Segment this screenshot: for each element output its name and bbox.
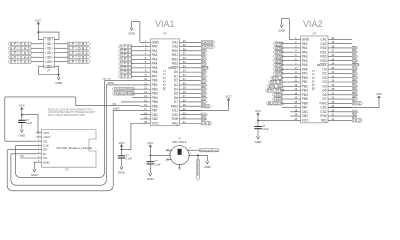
- svg-text:IRQ: IRQ: [321, 118, 327, 122]
- wire PB2: [134, 88, 140, 90]
- VIA2 left pin 2 (PA0): [290, 43, 301, 45]
- net label IO4: [201, 113, 207, 116]
- net label IRQ: [352, 119, 363, 122]
- wire PA7: [132, 75, 140, 77]
- net label GPIOB3: [68, 51, 91, 54]
- capacitor C1 0.1uF: [18, 119, 25, 121]
- wire VCC branch to pin 2: [38, 32, 59, 39]
- wire VIA2 PA0: [282, 43, 290, 45]
- wire PA2: [132, 54, 140, 56]
- svg-text:SHOULD CD BE ON AN INTERRUPT P: SHOULD CD BE ON AN INTERRUPT PIN?: [48, 109, 93, 112]
- VIA1 right pin 25 (PHI2): [179, 105, 201, 107]
- svg-text:GND: GND: [118, 171, 126, 175]
- GND power symbol below connector: [58, 75, 60, 77]
- DIN pin mid-left (VCC): [150, 154, 170, 156]
- MicroSD pin 8 (GND): [36, 161, 41, 163]
- VCC power symbol (VIA2): [257, 114, 259, 117]
- wire to connector pin 3: [31, 43, 44, 45]
- svg-text:GPIOB3: GPIOB3: [68, 51, 89, 55]
- DIN pin bottom (NC): [179, 164, 181, 168]
- GND power symbol (C3): [149, 171, 151, 173]
- wire PB5: [121, 101, 140, 103]
- svg-text:GND: GND: [255, 140, 263, 144]
- VIA2 left pin 16 (PB6): [290, 102, 301, 104]
- MicroSD pin 3 (CD): [36, 140, 41, 142]
- VCC power symbol (VIA1 bottom): [121, 146, 123, 149]
- wire PA5: [132, 67, 140, 69]
- wire to capacitor C4: [257, 120, 259, 126]
- wire MOSI net (SD DI ... bus): [11, 85, 106, 185]
- svg-text:GPIOA4: GPIOA4: [10, 55, 31, 59]
- svg-text:GND: GND: [278, 29, 286, 33]
- svg-text:GND: GND: [147, 177, 155, 181]
- svg-text:VCC: VCC: [118, 141, 124, 145]
- VIA2 left pin 20 (VCC): [290, 119, 301, 121]
- VIA1 left pin 17 (PB7): [140, 109, 151, 111]
- capacitor C2 0.1uF: [118, 155, 125, 157]
- wire cap C1 to GND: [21, 123, 23, 128]
- wire PA1: [132, 50, 140, 52]
- svg-text:GPIOA2: GPIOA2: [10, 46, 31, 50]
- net label GPA7: [118, 75, 131, 78]
- svg-text:OB_CLK: OB_CLK: [102, 79, 111, 81]
- wire SD GND pin to GND: [34, 162, 36, 167]
- wire pin 13 to GND: [39, 66, 59, 74]
- MicroSD breakout U2 body: [42, 130, 96, 168]
- VIA2 right pin 40 (CA1): [328, 38, 352, 40]
- svg-text:CS: CS: [20, 155, 24, 158]
- IC VIA1 body (W65C22): [150, 39, 179, 126]
- net label GPB1: [273, 46, 282, 49]
- svg-text:0.1uF: 0.1uF: [126, 157, 133, 160]
- svg-text:MISO: MISO: [113, 108, 119, 111]
- svg-text:PHI2: PHI2: [353, 101, 361, 105]
- svg-text:MicroSD_Breakout_LadyAda: MicroSD_Breakout_LadyAda: [57, 146, 93, 150]
- net label KeyboardData (vertical): [196, 160, 200, 180]
- net label GPIOB4: [68, 56, 91, 59]
- svg-text:IO5: IO5: [353, 110, 358, 114]
- VIA1 left pin 10 (PB0): [140, 80, 151, 82]
- VIA2 right pin 35 (RS3): [328, 60, 352, 62]
- wire VIA2 PA3: [282, 55, 290, 57]
- VIA1 left pin 11 (PB1): [140, 84, 151, 86]
- net label GPIOB5: [68, 60, 91, 63]
- junction: [58, 74, 60, 76]
- VIA2 right pin 30 (D3): [328, 81, 352, 83]
- svg-text:VCC: VCC: [19, 104, 25, 108]
- net label D6: [352, 93, 358, 96]
- GND power symbol (VIA1 top): [131, 25, 133, 27]
- wire CS1 to VCC: [179, 103, 228, 111]
- VIA1 right pin 34 (RESET): [179, 67, 201, 69]
- VIA1 right pin 39 (CA2): [179, 46, 201, 48]
- wire VIA2 PA6: [282, 68, 290, 70]
- VIA1 left pin 1 (GND): [140, 41, 151, 43]
- VIA2 left pin 1 (GND): [290, 38, 301, 40]
- VIA2 right pin 32 (D1): [328, 72, 352, 74]
- wire PA3: [132, 58, 140, 60]
- MicroSD pin 6 (DI): [36, 153, 41, 155]
- net label GPIOB1: [68, 42, 91, 45]
- svg-text:CD: CD: [113, 103, 117, 106]
- svg-text:VIA1: VIA1: [155, 19, 175, 29]
- VIA2 right pin 36 (RS2): [328, 55, 352, 57]
- svg-text:IRQ: IRQ: [202, 121, 212, 125]
- wire VIA2 PA5: [282, 64, 290, 66]
- VIA2 right pin 28 (D5): [328, 90, 352, 92]
- GND power symbol (C2): [121, 164, 123, 166]
- svg-text:KeyboardData: KeyboardData: [196, 161, 199, 177]
- VIA2 right pin 27 (D6): [328, 94, 352, 96]
- wire VIA2 VCC pin to VCC symbol: [258, 119, 290, 121]
- svg-text:VCC: VCC: [147, 141, 153, 145]
- net label GPB6: [273, 68, 282, 71]
- wire SCK net (SD CLK to VIA1 PB0): [15, 81, 104, 178]
- wire VCC to SD VCC pin: [21, 112, 23, 115]
- VIA2 left pin 18 (CB1): [290, 111, 301, 113]
- junction: [121, 149, 123, 151]
- wire to connector pin 5: [31, 47, 44, 49]
- net label D2: [352, 76, 358, 79]
- svg-text:GND: GND: [204, 165, 212, 169]
- net label D7: [201, 100, 207, 103]
- svg-text:VCC: VCC: [376, 92, 382, 96]
- net label RW: [352, 114, 357, 117]
- GND power symbol (C1): [21, 127, 23, 129]
- wire from connector pin 4: [54, 43, 67, 45]
- wire CD net (SD CD to VIA1 PB6): [5, 97, 76, 141]
- net label D3: [352, 80, 358, 83]
- net label A0: [352, 46, 357, 49]
- VIA1 right pin 32 (D1): [179, 75, 201, 77]
- connector J1 pin 2: [49, 38, 51, 40]
- VIA1 left pin 4 (PA2): [140, 54, 151, 56]
- VIA2 left pin 15 (PB5): [290, 98, 301, 100]
- wire to connector pin 11: [31, 61, 44, 63]
- VIA2 left pin 19 (CB2): [290, 115, 301, 117]
- net label BTN_STRT: [265, 89, 282, 92]
- net label GPIOA5: [8, 60, 31, 63]
- wire PB7 (MISO riser): [113, 109, 140, 111]
- VIA1 right pin 33 (D0): [179, 71, 201, 73]
- svg-text:CAN CB1/2 BE USED TO TRIGGER A: CAN CB1/2 BE USED TO TRIGGER AN IRQ?: [48, 111, 96, 114]
- MicroSD pin 7 (CS): [36, 157, 41, 159]
- net label GPB0: [273, 42, 282, 45]
- capacitor C4 0.1uF: [254, 126, 261, 128]
- VIA1 right pin 24 (CS1): [179, 109, 201, 111]
- svg-text:GND: GND: [18, 133, 26, 137]
- svg-text:J?: J?: [47, 69, 50, 73]
- wire to capacitor C1: [21, 115, 23, 121]
- VCC power symbol (VIA1 CS1): [228, 100, 230, 103]
- VIA1 right pin 29 (D4): [179, 88, 201, 90]
- junction: [197, 154, 199, 156]
- wire VIA2 PB2: [282, 85, 290, 87]
- net label GPIOA1: [8, 42, 31, 45]
- wire PB6 (CD): [76, 105, 140, 107]
- junction: [37, 31, 39, 33]
- net label GPB7: [273, 72, 282, 75]
- net label D1: [201, 75, 207, 78]
- svg-text:U?: U?: [313, 31, 317, 35]
- connector J1 pin 8: [49, 52, 51, 54]
- VIA2 right pin 25 (PHI2): [328, 102, 352, 104]
- junction: [149, 155, 151, 157]
- svg-text:IRQ: IRQ: [353, 118, 362, 122]
- VIA1 left pin 3 (PA1): [140, 50, 151, 52]
- wire C4 to GND: [257, 129, 259, 134]
- VIA2 left pin 17 (PB7): [290, 107, 301, 109]
- svg-text:GPIOB2: GPIOB2: [68, 46, 89, 50]
- net label D0: [201, 70, 207, 73]
- net label GPA1: [118, 49, 131, 52]
- VIA1 right pin 30 (D3): [179, 84, 201, 86]
- connector J1 pin 6: [49, 47, 51, 49]
- VCC power symbol above connector: [37, 23, 39, 26]
- net label RES: [352, 63, 359, 66]
- net label IRQ: [201, 122, 212, 125]
- wire VIA2 PB6: [282, 102, 290, 104]
- net label D0: [352, 68, 358, 71]
- wire VIA2 PA4: [282, 60, 290, 62]
- IC VIA2 body (W65C22): [301, 36, 328, 123]
- net label D5: [352, 89, 358, 92]
- VIA2 left pin 12 (PB2): [290, 85, 301, 87]
- VIA1 right pin 35 (RS3): [179, 63, 201, 65]
- svg-text:GPIOB5: GPIOB5: [68, 60, 89, 64]
- net label D4: [201, 88, 207, 91]
- VIA2 left pin 11 (PB1): [290, 81, 301, 83]
- VIA1 left pin 5 (PA3): [140, 58, 151, 60]
- net label GPA3: [118, 58, 131, 61]
- wire to capacitor C2: [121, 149, 123, 155]
- svg-text:PHI2: PHI2: [202, 104, 210, 108]
- MicroSD pin 2 (+3V3): [36, 136, 41, 138]
- net label KeyboardData: [112, 92, 134, 95]
- wire VIA2 PA1: [282, 47, 290, 49]
- VIA2 right pin 34 (RESET): [328, 64, 352, 66]
- net label GPB5: [273, 63, 282, 66]
- net label RW: [201, 117, 206, 120]
- wire to connector pin 7: [31, 52, 44, 54]
- VIA1 left pin 13 (PB3): [140, 92, 151, 94]
- Mini-DIN-6 connector J2: [170, 146, 189, 165]
- wire to connector pin 9: [31, 56, 44, 58]
- svg-text:W65C22: W65C22: [161, 69, 166, 91]
- svg-text:IRQ: IRQ: [172, 121, 178, 125]
- svg-text:GPIOA1: GPIOA1: [10, 42, 31, 46]
- wire from connector pin 12: [54, 61, 67, 63]
- net label GPA4: [118, 62, 131, 65]
- wire from connector pin 8: [54, 52, 67, 54]
- wire VIA2 PB3: [282, 90, 290, 92]
- DIN pin upper-left (NC): [167, 149, 172, 151]
- wire PA6: [132, 71, 140, 73]
- net label GPIOA2: [8, 47, 31, 50]
- svg-text:VCC: VCC: [302, 118, 309, 122]
- VIA2 right pin 39 (CA2): [328, 43, 352, 45]
- VIA2 right pin 37 (RS1): [328, 51, 352, 53]
- net label CA1INT: [201, 41, 214, 44]
- VIA2 left pin 14 (PB4): [290, 94, 301, 96]
- DIN key (filled): [178, 149, 182, 155]
- VIA2 left pin 13 (PB3): [290, 90, 301, 92]
- svg-text:VCC: VCC: [225, 95, 231, 99]
- net label GPIOB2: [68, 47, 91, 50]
- VIA1 right pin 36 (RS2): [179, 58, 201, 60]
- svg-text:VCC: VCC: [35, 18, 41, 22]
- svg-text:VCC: VCC: [152, 121, 159, 125]
- VIA2 right pin 31 (D2): [328, 77, 352, 79]
- VIA1 right pin 27 (D6): [179, 97, 201, 99]
- wire VIA2 PA7: [282, 72, 290, 74]
- svg-text:U?: U?: [163, 31, 167, 35]
- net label PHI2: [201, 105, 211, 108]
- net label A2: [201, 58, 207, 61]
- net label A3: [352, 59, 357, 62]
- net label CA2INT: [201, 45, 214, 48]
- VIA2 right pin 29 (D4): [328, 85, 352, 87]
- VIA2 left pin 5 (PA3): [290, 55, 301, 57]
- VIA2 left pin 8 (PA6): [290, 68, 301, 70]
- svg-text:GPIOB4: GPIOB4: [68, 55, 89, 59]
- VIA2 right pin 26 (D7): [328, 98, 352, 100]
- net label BTN_A: [270, 76, 282, 79]
- GND power symbol (C4): [257, 134, 259, 136]
- wire VIA2 PB7: [282, 107, 290, 109]
- svg-text:MOSI: MOSI: [108, 82, 114, 85]
- MicroSD pin 1 (VCC): [36, 132, 41, 134]
- wire pin 14 to GND: [54, 66, 58, 74]
- net label A1: [352, 51, 357, 54]
- net label BUZZER1: [266, 102, 282, 105]
- net label GPA0: [118, 45, 131, 48]
- VIA1 right pin 40 (CA1): [179, 41, 201, 43]
- VIA1 right pin 21 (IRQ): [179, 122, 201, 124]
- wire cap to GND: [121, 158, 123, 164]
- VIA1 right pin 28 (D5): [179, 92, 201, 94]
- GND power symbol (VIA2 top): [281, 22, 283, 24]
- VCC power symbol (DIN): [149, 146, 151, 149]
- net label LED2: [272, 97, 282, 100]
- svg-text:GND: GND: [55, 81, 63, 85]
- connector J1 pin 14: [49, 65, 51, 67]
- wire VIA2 PB4: [282, 94, 290, 96]
- net label GPB3: [273, 55, 282, 58]
- svg-text:W65C22: W65C22: [311, 69, 316, 91]
- wire VIA2 CS1 to VCC: [328, 100, 379, 107]
- wire VCC to pin 1: [38, 27, 43, 40]
- svg-text:WHAT COULD WE DO WITH THIS?: WHAT COULD WE DO WITH THIS?: [48, 114, 86, 117]
- net label GPA5: [118, 66, 131, 69]
- wire VIA2 PB1: [282, 81, 290, 83]
- VIA1 left pin 6 (PA4): [140, 63, 151, 65]
- net label D3: [201, 83, 207, 86]
- VIA2 left pin 9 (PA7): [290, 72, 301, 74]
- wire VIA2 PA2: [282, 51, 290, 53]
- DIN pin upper-right KeyboardClock: [187, 149, 200, 151]
- net label BTN_B1: [269, 80, 283, 83]
- VIA2 left pin 10 (PB0): [290, 77, 301, 79]
- svg-text:KeyboardData: KeyboardData: [114, 91, 135, 95]
- wire PA4: [132, 63, 140, 65]
- capacitor C3 0.1uF: [147, 161, 154, 163]
- svg-text:GND: GND: [43, 160, 51, 164]
- wire PA0: [132, 46, 140, 48]
- VIA1 left pin 8 (PA6): [140, 71, 151, 73]
- net label D5: [201, 92, 207, 95]
- junction: [21, 114, 23, 116]
- svg-text:KeyboardClock: KeyboardClock: [200, 148, 219, 152]
- wire MISO net (SD DO ... bus): [7, 110, 113, 190]
- wire to capacitor C3: [149, 155, 151, 161]
- VIA2 right pin 21 (IRQ): [328, 119, 352, 121]
- VIA1 left pin 2 (PA0): [140, 46, 151, 48]
- net label GPIOA4: [8, 56, 31, 59]
- wire VIA2 PB0: [282, 77, 290, 79]
- VIA1 left pin 12 (PB2): [140, 88, 151, 90]
- wire VIA2 PB5: [282, 98, 290, 100]
- VIA1 left pin 19 (CB2): [140, 118, 151, 120]
- net label D2: [201, 79, 207, 82]
- svg-text:GPIOA3: GPIOA3: [10, 51, 31, 55]
- wire from connector pin 6: [54, 47, 67, 49]
- VIA1 left pin 16 (PB6): [140, 105, 151, 107]
- net label IO5: [352, 110, 358, 113]
- DIN pin mid-right to GND: [188, 155, 207, 158]
- VIA2 left pin 3 (PA1): [290, 47, 301, 49]
- VIA1 right pin 31 (D2): [179, 80, 201, 82]
- wire SD CS stub: [20, 157, 36, 159]
- wire PB0 (SCK riser): [105, 80, 140, 82]
- svg-text:VCC: VCC: [255, 109, 261, 113]
- net label D4: [352, 85, 358, 88]
- svg-text:GPIOB1: GPIOB1: [68, 42, 89, 46]
- VCC power symbol (VIA2 CS1): [378, 97, 380, 100]
- VIA2 left pin 4 (PA2): [290, 51, 301, 53]
- net label GPA2: [118, 53, 131, 56]
- net label GPB4: [273, 59, 282, 62]
- net label D7: [352, 97, 358, 100]
- net label GPB2: [273, 51, 282, 54]
- net label PHI2: [352, 102, 363, 105]
- VIA2 right pin 22 (R/W): [328, 115, 352, 117]
- net label D1: [352, 72, 358, 75]
- svg-text:GPA7: GPA7: [120, 74, 133, 78]
- VIA1 left pin 14 (PB4): [140, 97, 151, 99]
- VIA2 left pin 7 (PA5): [290, 64, 301, 66]
- net label GPIOA3: [8, 51, 31, 54]
- connector J1 pin 10: [49, 56, 51, 58]
- svg-text:GND: GND: [128, 32, 136, 36]
- svg-text:0.1uF: 0.1uF: [154, 163, 161, 166]
- wire PB4: [132, 97, 140, 99]
- svg-text:GPIOA5: GPIOA5: [10, 60, 31, 64]
- net label LED1: [272, 93, 282, 96]
- wire PB3: [134, 92, 140, 94]
- wire C3 to GND: [149, 164, 151, 171]
- VIA2 right pin 38 (RS0): [328, 47, 352, 49]
- net label GPA6: [118, 70, 131, 73]
- VIA1 right pin 26 (D7): [179, 101, 201, 103]
- svg-text:0.1uF: 0.1uF: [26, 122, 33, 125]
- net label D6: [201, 96, 207, 99]
- VIA2 right pin 24 (CS1): [328, 107, 352, 109]
- MicroSD pin 5 (DO): [36, 149, 41, 151]
- DIN pin lower-left (NC): [167, 159, 172, 161]
- net label KeyboardClock: [199, 149, 219, 152]
- net label A0: [201, 49, 207, 52]
